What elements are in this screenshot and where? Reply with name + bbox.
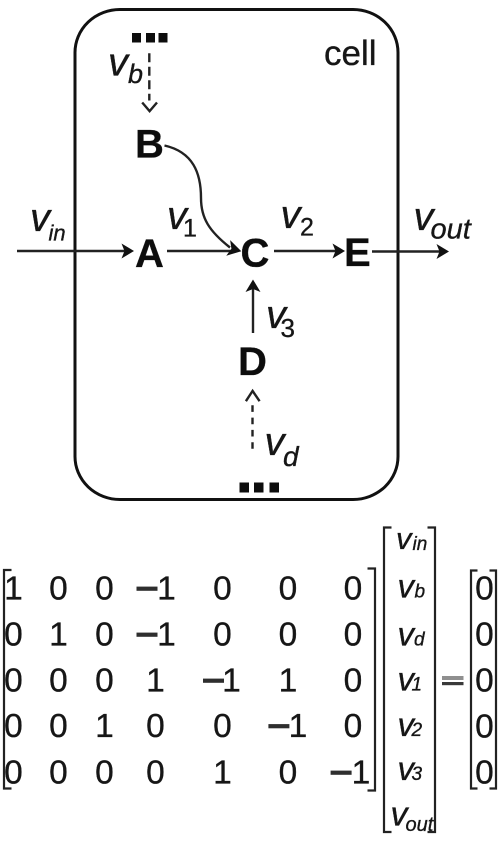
curved arrow B to C bbox=[165, 146, 231, 248]
svg-text:1: 1 bbox=[279, 663, 298, 700]
bottom ellipsis dots bbox=[240, 483, 280, 493]
svg-text:0: 0 bbox=[4, 708, 23, 745]
equals sign bbox=[442, 676, 464, 685]
dashed arrow vb into B bbox=[142, 53, 157, 111]
svg-text:0: 0 bbox=[213, 617, 232, 654]
svg-text:out: out bbox=[431, 214, 473, 246]
top ellipsis dots bbox=[132, 33, 168, 43]
svg-text:v: v bbox=[396, 521, 413, 556]
svg-text:0: 0 bbox=[49, 571, 68, 608]
svg-text:0: 0 bbox=[279, 571, 298, 608]
svg-text:0: 0 bbox=[475, 571, 494, 608]
arrow E out of cell bbox=[372, 244, 449, 259]
arrow vin into cell bbox=[17, 244, 134, 259]
svg-text:C: C bbox=[241, 232, 270, 276]
svg-text:0: 0 bbox=[95, 617, 114, 654]
svg-text:1: 1 bbox=[157, 617, 176, 654]
svg-text:0: 0 bbox=[279, 617, 298, 654]
svg-text:0: 0 bbox=[49, 663, 68, 700]
svg-text:v: v bbox=[108, 41, 130, 85]
svg-text:b: b bbox=[415, 582, 426, 603]
svg-text:1: 1 bbox=[183, 215, 197, 243]
svg-text:A: A bbox=[135, 232, 164, 276]
svg-text:d: d bbox=[283, 441, 300, 472]
svg-text:0: 0 bbox=[344, 708, 363, 745]
svg-text:1: 1 bbox=[412, 675, 423, 696]
svg-text:0: 0 bbox=[95, 663, 114, 700]
svg-text:0: 0 bbox=[344, 571, 363, 608]
svg-text:d: d bbox=[414, 630, 426, 651]
svg-text:0: 0 bbox=[95, 571, 114, 608]
svg-text:2: 2 bbox=[300, 214, 314, 242]
zero vector right bracket bbox=[490, 571, 497, 789]
svg-text:0: 0 bbox=[279, 755, 298, 792]
svg-text:1: 1 bbox=[49, 617, 68, 654]
svg-text:cell: cell bbox=[324, 34, 377, 73]
arrow C to E bbox=[274, 244, 345, 259]
zero vector left bracket bbox=[471, 571, 478, 789]
svg-text:0: 0 bbox=[146, 755, 165, 792]
svg-text:1: 1 bbox=[157, 571, 176, 608]
flux vector right bracket bbox=[428, 528, 436, 833]
svg-text:B: B bbox=[135, 123, 164, 167]
svg-text:3: 3 bbox=[412, 764, 423, 785]
svg-text:0: 0 bbox=[213, 708, 232, 745]
svg-text:0: 0 bbox=[475, 617, 494, 654]
matrix entries bbox=[4, 571, 370, 792]
matrix right bracket bbox=[368, 569, 376, 791]
svg-text:1: 1 bbox=[4, 571, 23, 608]
svg-text:0: 0 bbox=[475, 755, 494, 792]
svg-text:0: 0 bbox=[4, 663, 23, 700]
svg-text:b: b bbox=[128, 59, 143, 89]
flux vector left bracket bbox=[384, 528, 392, 833]
svg-text:E: E bbox=[344, 231, 371, 275]
zero vector entries bbox=[475, 571, 494, 792]
svg-text:D: D bbox=[238, 340, 267, 384]
svg-text:1: 1 bbox=[222, 663, 241, 700]
svg-text:0: 0 bbox=[475, 663, 494, 700]
svg-text:0: 0 bbox=[146, 708, 165, 745]
svg-text:1: 1 bbox=[95, 708, 114, 745]
svg-text:in: in bbox=[413, 534, 428, 555]
svg-text:1: 1 bbox=[289, 708, 308, 745]
matrix left bracket bbox=[4, 570, 12, 789]
arrow A to C bbox=[167, 240, 243, 259]
svg-text:0: 0 bbox=[4, 755, 23, 792]
arrow v3 from D to C bbox=[246, 280, 261, 334]
svg-text:0: 0 bbox=[49, 755, 68, 792]
svg-text:0: 0 bbox=[49, 708, 68, 745]
svg-text:0: 0 bbox=[344, 617, 363, 654]
dashed arrow vd into D bbox=[246, 391, 260, 449]
svg-text:0: 0 bbox=[344, 663, 363, 700]
svg-text:0: 0 bbox=[4, 617, 23, 654]
svg-text:0: 0 bbox=[95, 755, 114, 792]
svg-text:1: 1 bbox=[146, 663, 165, 700]
svg-text:in: in bbox=[49, 221, 66, 246]
flux vector entries bbox=[391, 521, 435, 836]
svg-text:2: 2 bbox=[411, 720, 423, 741]
svg-text:1: 1 bbox=[213, 755, 232, 792]
svg-text:1: 1 bbox=[352, 755, 371, 792]
svg-text:3: 3 bbox=[281, 313, 295, 343]
svg-text:0: 0 bbox=[213, 571, 232, 608]
svg-text:0: 0 bbox=[475, 709, 494, 746]
cell membrane rounded rectangle bbox=[75, 10, 398, 500]
